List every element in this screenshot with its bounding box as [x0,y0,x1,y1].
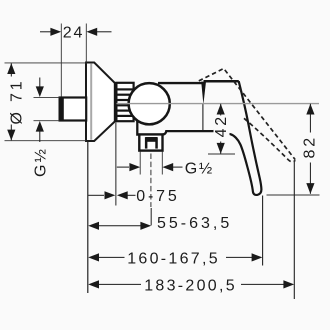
svg-text:42: 42 [213,114,230,137]
escutcheon cone face [114,82,117,122]
handle lever [228,81,261,195]
dim 82 label [302,133,319,163]
svg-text:G½: G½ [185,160,212,177]
knurled ring [116,83,133,121]
outlet hex nut [139,134,162,150]
handle raised tip extension line [293,162,295,299]
inlet pipe nipple G1/2 [59,97,87,121]
nut extension line left [139,152,141,175]
dim diameter71 extension bottom [5,140,87,142]
nut extension line right [161,152,163,175]
dim diameter71 line and arrows [7,63,15,140]
outlet centerline dashed [150,154,152,208]
escutcheon flange [86,63,115,142]
dim 42 label [213,114,230,142]
valve body lower outline [137,121,217,135]
centerline horizontal axis [117,103,320,105]
dim 42 bottom extension [208,153,235,155]
valve cap circle [129,83,170,124]
handle raised position dashed upper line [199,69,295,160]
dim 24 arrows and line [40,28,112,36]
svg-text:160-167,5: 160-167,5 [127,250,220,267]
handle tip extension line [262,196,264,266]
svg-text:0-75: 0-75 [136,188,179,205]
handle base [204,80,239,83]
svg-text:Ø 71: Ø 71 [9,79,26,125]
svg-text:G½: G½ [32,149,49,177]
svg-text:24: 24 [63,25,84,42]
pipe OD extension bottom [34,120,60,122]
dim diameter71 extension top [5,62,88,64]
dim diameter71 label [6,77,26,125]
handle raised position dashed lower line [244,118,295,162]
wall plane extension line [87,142,89,294]
body internal vertical line [202,104,204,130]
pipe OD arrows [36,78,44,143]
dim 0-75 line and arrows [88,191,135,199]
svg-text:82: 82 [302,135,319,158]
dim 24 extension line right [85,24,87,62]
dim 55-63,5 [88,222,151,230]
pipe OD extension top [34,96,60,98]
escutcheon face extension line [115,122,117,206]
handle hinge notch [201,82,206,105]
dim 42 line and arrows [217,104,225,154]
dim 24 extension line left [60,24,62,97]
dim G half middle arrows [117,163,183,171]
svg-text:55-63,5: 55-63,5 [157,215,232,232]
dim 160-167,5 [88,253,262,261]
dim 82 bottom extension [267,194,320,196]
dim 183-200,5 [88,280,294,288]
svg-text:183-200,5: 183-200,5 [144,278,237,295]
dim 82 line and arrows [306,104,314,194]
valve body right section top edge [158,82,202,84]
